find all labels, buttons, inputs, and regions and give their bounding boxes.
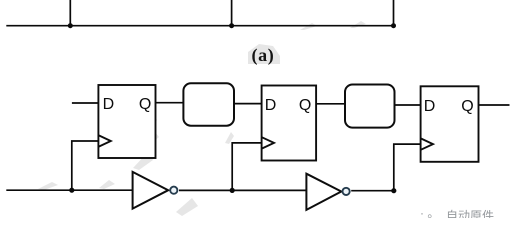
wire: U1 Q output to delay box 1 xyxy=(156,102,184,104)
flip-flop U3 body xyxy=(421,86,479,162)
wire: top vertical tap right xyxy=(393,0,395,26)
svg-text:Q: Q xyxy=(139,96,151,113)
wire: top vertical tap middle xyxy=(231,0,233,26)
wire: D input stub to U1 xyxy=(72,102,98,104)
svg-text:· 。: · 。 xyxy=(420,206,439,218)
inverter G1 output bubble xyxy=(170,187,177,194)
node: junction dot middle on top bus xyxy=(229,23,234,28)
clock chevron of U2 xyxy=(262,137,274,148)
node: junction dot left on top bus xyxy=(68,23,73,28)
wire: delay box 2 to U3 D input xyxy=(395,104,421,106)
wire: U3 Q output stub xyxy=(479,104,510,106)
wire: clock rail segment 3 xyxy=(351,190,394,192)
node: junction dot right on top bus xyxy=(391,23,396,28)
wire: clock rail segment 1 xyxy=(6,189,132,191)
node: clock tap dot for U2 xyxy=(230,188,235,193)
clock chevron of U1 xyxy=(99,135,111,146)
svg-text:(a): (a) xyxy=(252,45,275,66)
svg-text:Q: Q xyxy=(299,97,311,114)
svg-text:D: D xyxy=(265,97,277,114)
inverter G2 output bubble xyxy=(343,188,350,195)
wire: top vertical tap left xyxy=(69,0,71,26)
svg-text:Q: Q xyxy=(461,98,473,115)
wire: clock riser and branch to U3 xyxy=(394,144,421,191)
flip-flop U2 body xyxy=(262,86,317,161)
wire: U2 Q output to delay box 2 xyxy=(316,103,345,105)
node: clock tap dot for U3 xyxy=(391,188,396,193)
inverter G1 xyxy=(133,172,169,209)
delay box 1 xyxy=(183,83,234,125)
wire: delay box 1 to U2 D input xyxy=(234,103,262,105)
delay box 2 xyxy=(345,85,395,128)
inverter G2 xyxy=(306,174,341,210)
wire: top horizontal bus xyxy=(6,25,393,27)
svg-text:D: D xyxy=(424,98,436,115)
svg-text:自动原件: 自动原件 xyxy=(446,209,494,218)
wire: clock riser and branch to U1 xyxy=(72,141,99,190)
svg-text:D: D xyxy=(103,96,115,113)
flip-flop U1 body xyxy=(98,85,155,158)
wire: clock rail segment 2 xyxy=(179,189,306,191)
clock chevron of U3 xyxy=(421,139,433,150)
wire: clock riser and branch to U2 xyxy=(232,143,261,191)
node: clock tap dot for U1 xyxy=(69,188,74,193)
